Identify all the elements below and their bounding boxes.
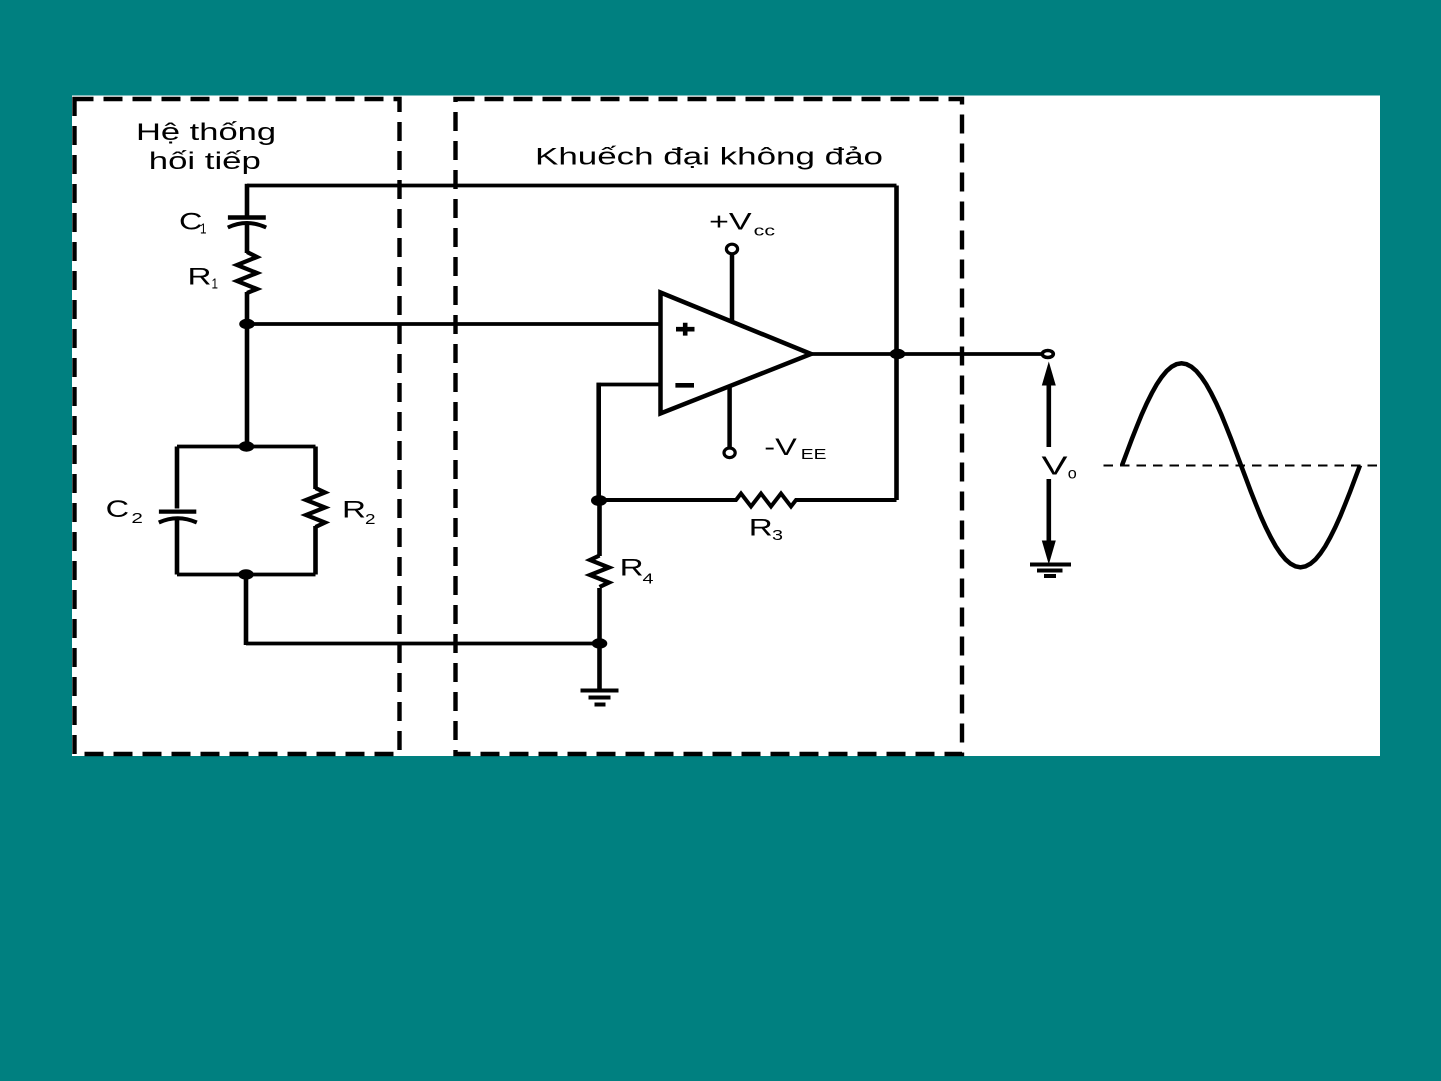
wire C1 to R1 [245, 222, 250, 254]
resistor R4 [590, 556, 609, 588]
svg-text:4: 4 [643, 571, 654, 588]
white panel [72, 96, 1380, 757]
svg-text:V: V [1042, 451, 1069, 481]
svg-text:Khuếch đại không đảo: Khuếch đại không đảo [535, 143, 883, 170]
wire top horizontal + right vertical [247, 184, 897, 188]
+Vcc wire [730, 255, 735, 323]
svg-text:2: 2 [131, 510, 143, 527]
node D [591, 495, 607, 506]
svg-text:3: 3 [772, 527, 783, 544]
feedback box (dashed) [75, 99, 400, 754]
op-amp + input sign [676, 323, 695, 336]
node A [239, 319, 255, 329]
svg-text:Hệ thống: Hệ thống [136, 119, 276, 146]
-VEE terminal [724, 448, 735, 458]
wire R1 down through node A to node B [245, 292, 250, 447]
svg-text:R: R [620, 555, 644, 582]
-VEE wire [727, 385, 732, 447]
C2/R2 parallel box top wire [177, 445, 316, 449]
svg-text:C: C [179, 209, 203, 236]
left branch upper wire [175, 447, 180, 509]
svg-text:1: 1 [200, 221, 207, 238]
svg-text:o: o [1068, 466, 1077, 483]
svg-text:+V: +V [709, 208, 752, 235]
node C [238, 569, 254, 579]
bottom wire of parallel box [177, 573, 316, 577]
svg-text:R: R [188, 264, 212, 291]
wire node D up to op-amp - input [596, 383, 601, 501]
capacitor C2 [159, 510, 196, 514]
svg-text:R: R [342, 496, 366, 523]
output node [890, 349, 906, 359]
ground (R4) [581, 689, 619, 693]
capacitor C1 [228, 215, 266, 219]
svg-text:C: C [106, 496, 130, 523]
left branch lower wire [175, 517, 180, 575]
node B [239, 441, 255, 451]
wire node E up to R4 [597, 588, 602, 644]
wire node C down and right to R4 ground node [244, 575, 249, 646]
+Vcc terminal [726, 244, 737, 254]
svg-text:2: 2 [365, 511, 376, 528]
svg-text:R: R [749, 515, 773, 542]
op-amp U1 [661, 293, 812, 414]
node E (R4 bottom) [592, 638, 608, 648]
ground (Vo) [1030, 563, 1071, 567]
op-amp - input sign [675, 383, 694, 388]
svg-text:-V: -V [764, 434, 797, 461]
output terminal circle [1042, 351, 1053, 358]
output wire [809, 352, 1042, 356]
svg-text:1: 1 [212, 276, 219, 293]
svg-text:EE: EE [801, 446, 827, 463]
amplifier box (dashed) [456, 99, 963, 754]
right branch upper wire [313, 447, 318, 490]
resistor R2 [306, 488, 325, 527]
resistor R1 [237, 252, 257, 293]
wire R4 to node D [597, 501, 602, 557]
zero axis dashed line [1104, 465, 1381, 467]
Vo arrow (double headed) [1047, 380, 1052, 447]
wire node E to ground [597, 644, 602, 689]
right branch lower wire [313, 526, 318, 575]
wire node A to op-amp + input [247, 322, 662, 326]
resistor R3 with wires [599, 494, 897, 507]
svg-text:hối tiếp: hối tiếp [149, 148, 261, 175]
svg-text:cc: cc [754, 223, 776, 240]
sine wave [1122, 363, 1360, 567]
